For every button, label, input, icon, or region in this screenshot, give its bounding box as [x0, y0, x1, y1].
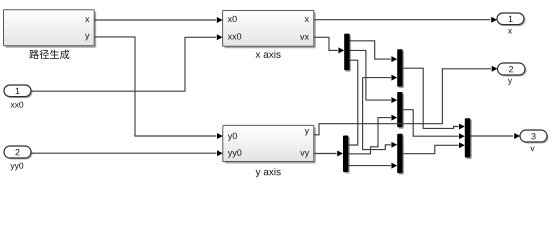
inport 2 yy0: [4, 146, 33, 170]
wire D.out3 -> E.in2: [348, 163, 397, 169]
mux F: [465, 118, 472, 159]
wire inport2 -> y axis.yy0: [31, 150, 223, 156]
outport 1 x: [497, 13, 526, 34]
wire x axis.x -> outport1: [314, 17, 497, 23]
wire D.out2 -> C.in2: [348, 115, 397, 154]
wire A.out1 -> B.in1: [350, 41, 398, 62]
wire E.out -> F.in3: [402, 142, 465, 153]
wire S1.y -> y axis.y0: [94, 37, 223, 139]
subsystem 路径生成: [4, 10, 97, 59]
wire x axis.vx -> demux A: [314, 37, 344, 53]
mux E: [397, 134, 404, 175]
subsystem x axis U2: [223, 11, 316, 58]
demux D: [343, 136, 350, 174]
wire F.out -> outport3: [470, 133, 520, 139]
wire B.out -> F.in1: [402, 68, 465, 129]
inport 1 xx0: [4, 85, 33, 108]
mux C: [397, 92, 404, 129]
wire y axis.vy -> demux D: [314, 151, 343, 157]
demux A: [344, 34, 351, 72]
wire S1.x -> x axis.x0: [94, 17, 222, 23]
wire A.out3 -> E.in1: [348, 60, 397, 149]
outport 2 y: [498, 63, 527, 85]
subsystem y axis U3: [223, 125, 316, 177]
mux B: [397, 49, 404, 88]
wire C.out -> F.in2: [402, 110, 465, 140]
wire inport1 -> x axis.xx0: [31, 34, 223, 91]
outport 3 v: [520, 130, 549, 151]
wire A.out2 -> C.in1: [350, 50, 398, 103]
wire D.out1 -> B.in2: [363, 75, 398, 81]
wire y axis.y -> outport2: [314, 66, 498, 135]
